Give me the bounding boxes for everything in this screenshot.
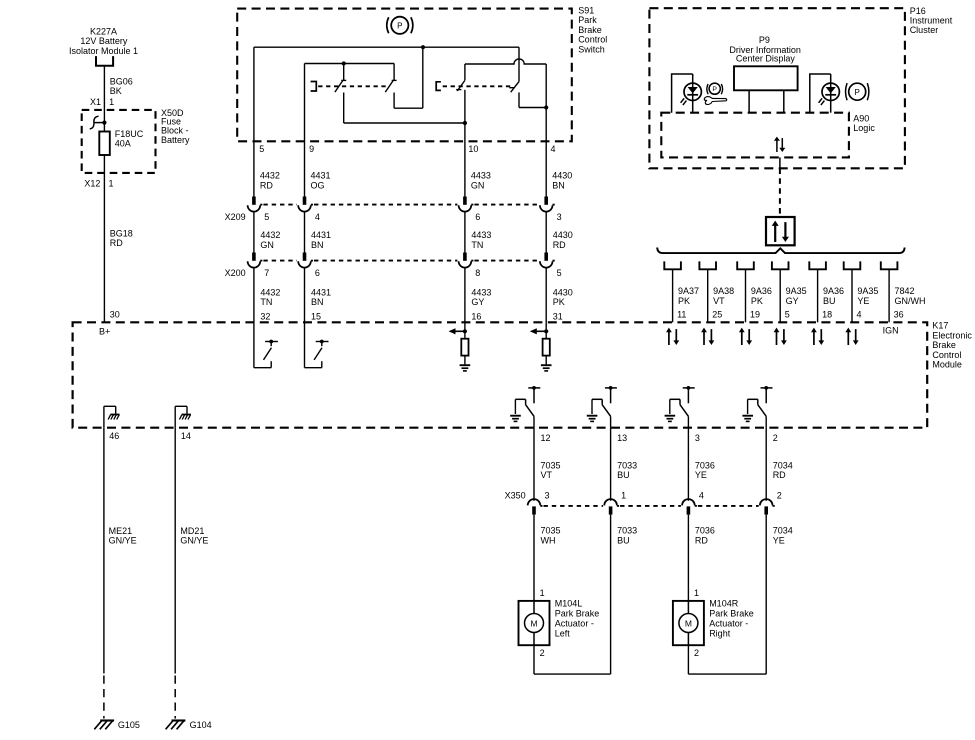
svg-text:7034: 7034 <box>773 526 793 536</box>
svg-text:9A35: 9A35 <box>786 286 807 296</box>
svg-text:9A36: 9A36 <box>823 286 844 296</box>
svg-text:WH: WH <box>541 536 556 546</box>
svg-text:PK: PK <box>678 296 690 306</box>
svg-text:MD21: MD21 <box>180 526 204 536</box>
svg-text:K17: K17 <box>932 321 948 331</box>
svg-text:PK: PK <box>553 297 565 307</box>
svg-text:30: 30 <box>110 309 120 319</box>
svg-text:Control: Control <box>578 35 607 45</box>
svg-text:4430: 4430 <box>552 171 572 181</box>
svg-text:2: 2 <box>773 433 778 443</box>
svg-text:18: 18 <box>822 310 832 320</box>
svg-text:9: 9 <box>309 144 314 154</box>
svg-text:Actuator -: Actuator - <box>555 618 594 628</box>
svg-text:32: 32 <box>260 312 270 322</box>
svg-text:4431: 4431 <box>311 287 331 297</box>
svg-text:7: 7 <box>264 268 269 278</box>
svg-text:S91: S91 <box>578 6 594 16</box>
svg-text:YE: YE <box>773 536 785 546</box>
svg-text:RD: RD <box>695 536 708 546</box>
svg-text:GY: GY <box>786 296 799 306</box>
svg-text:5: 5 <box>785 310 790 320</box>
svg-text:7033: 7033 <box>617 460 637 470</box>
svg-text:GY: GY <box>471 297 484 307</box>
svg-text:4432: 4432 <box>260 287 280 297</box>
svg-text:GN/WH: GN/WH <box>895 296 926 306</box>
svg-text:31: 31 <box>553 312 563 322</box>
svg-text:4431: 4431 <box>311 230 331 240</box>
svg-text:VT: VT <box>713 296 725 306</box>
svg-text:3: 3 <box>557 212 562 222</box>
svg-text:X12: X12 <box>84 179 100 189</box>
svg-text:4433: 4433 <box>471 171 491 181</box>
svg-text:10: 10 <box>468 144 478 154</box>
svg-text:4432: 4432 <box>260 171 280 181</box>
svg-text:BU: BU <box>617 536 630 546</box>
svg-text:G105: G105 <box>118 720 140 730</box>
svg-text:YE: YE <box>857 296 869 306</box>
svg-text:Park Brake: Park Brake <box>709 609 754 619</box>
svg-text:1: 1 <box>109 97 114 107</box>
svg-text:TN: TN <box>471 240 483 250</box>
svg-text:7035: 7035 <box>541 460 561 470</box>
svg-text:Center Display: Center Display <box>736 53 796 63</box>
svg-text:4: 4 <box>315 212 320 222</box>
svg-text:4432: 4432 <box>260 230 280 240</box>
svg-text:2: 2 <box>777 491 782 501</box>
svg-text:Switch: Switch <box>578 44 605 54</box>
svg-text:8: 8 <box>475 268 480 278</box>
svg-text:Left: Left <box>555 628 571 638</box>
svg-text:6: 6 <box>475 212 480 222</box>
svg-text:1: 1 <box>109 179 114 189</box>
svg-text:Electronic: Electronic <box>932 330 972 340</box>
svg-text:Brake: Brake <box>932 340 956 350</box>
svg-text:X1: X1 <box>90 97 101 107</box>
svg-text:4: 4 <box>857 310 862 320</box>
svg-text:4431: 4431 <box>311 171 331 181</box>
svg-text:Isolator Module 1: Isolator Module 1 <box>69 46 138 56</box>
svg-text:5: 5 <box>264 212 269 222</box>
svg-text:BG06: BG06 <box>110 76 133 86</box>
svg-text:9A37: 9A37 <box>678 286 699 296</box>
svg-text:2: 2 <box>540 648 545 658</box>
svg-text:Actuator -: Actuator - <box>709 618 748 628</box>
svg-text:4: 4 <box>551 144 556 154</box>
svg-text:IGN: IGN <box>883 326 899 336</box>
svg-text:1: 1 <box>540 588 545 598</box>
svg-text:RD: RD <box>110 238 123 248</box>
svg-text:P16: P16 <box>910 6 926 16</box>
svg-text:4433: 4433 <box>471 230 491 240</box>
svg-text:Cluster: Cluster <box>910 25 939 35</box>
svg-text:4: 4 <box>699 491 704 501</box>
svg-text:GN: GN <box>471 180 485 190</box>
svg-text:X350: X350 <box>505 491 526 501</box>
svg-text:BK: BK <box>110 86 122 96</box>
svg-text:YE: YE <box>695 470 707 480</box>
svg-text:K227A: K227A <box>90 26 117 36</box>
svg-text:19: 19 <box>750 310 760 320</box>
svg-text:OG: OG <box>311 180 325 190</box>
svg-text:Logic: Logic <box>853 123 875 133</box>
svg-text:P: P <box>855 88 860 97</box>
svg-text:3: 3 <box>545 491 550 501</box>
svg-text:7033: 7033 <box>617 526 637 536</box>
svg-text:7034: 7034 <box>773 460 793 470</box>
svg-text:P9: P9 <box>759 35 770 45</box>
svg-text:7035: 7035 <box>541 526 561 536</box>
svg-text:RD: RD <box>773 470 786 480</box>
svg-text:40A: 40A <box>115 139 131 149</box>
svg-text:7036: 7036 <box>695 526 715 536</box>
svg-text:46: 46 <box>109 431 119 441</box>
svg-text:12: 12 <box>541 433 551 443</box>
svg-text:14: 14 <box>181 431 191 441</box>
svg-text:M104L: M104L <box>555 599 583 609</box>
svg-text:6: 6 <box>315 268 320 278</box>
svg-text:11: 11 <box>677 310 686 320</box>
svg-text:Brake: Brake <box>578 25 602 35</box>
svg-text:5: 5 <box>557 268 562 278</box>
svg-text:Instrument: Instrument <box>910 16 953 26</box>
svg-text:4433: 4433 <box>471 287 491 297</box>
svg-text:Control: Control <box>932 350 961 360</box>
svg-text:12V Battery: 12V Battery <box>80 36 128 46</box>
svg-text:P: P <box>712 86 717 93</box>
svg-text:X200: X200 <box>225 268 246 278</box>
svg-text:3: 3 <box>695 433 700 443</box>
svg-text:1: 1 <box>694 588 699 598</box>
svg-text:B+: B+ <box>99 326 110 336</box>
svg-text:Module: Module <box>932 360 962 370</box>
svg-text:25: 25 <box>712 310 722 320</box>
svg-text:15: 15 <box>311 312 321 322</box>
svg-text:ME21: ME21 <box>109 526 133 536</box>
svg-text:P: P <box>397 21 402 30</box>
svg-text:7036: 7036 <box>695 460 715 470</box>
svg-text:GN/YE: GN/YE <box>109 536 137 546</box>
svg-text:13: 13 <box>617 433 627 443</box>
svg-text:Battery: Battery <box>161 135 190 145</box>
svg-text:TN: TN <box>260 297 272 307</box>
svg-text:9A35: 9A35 <box>857 286 878 296</box>
svg-text:GN/YE: GN/YE <box>180 536 208 546</box>
svg-text:M104R: M104R <box>709 599 739 609</box>
svg-text:GN: GN <box>260 240 274 250</box>
svg-text:Park Brake: Park Brake <box>555 609 600 619</box>
svg-text:BN: BN <box>311 240 324 250</box>
svg-text:5: 5 <box>259 144 264 154</box>
svg-text:16: 16 <box>471 312 481 322</box>
svg-text:X209: X209 <box>225 212 246 222</box>
svg-text:M: M <box>685 618 692 628</box>
svg-text:BN: BN <box>552 180 565 190</box>
svg-text:36: 36 <box>894 310 904 320</box>
svg-text:4430: 4430 <box>553 287 573 297</box>
svg-text:BU: BU <box>617 470 630 480</box>
svg-text:Right: Right <box>709 628 731 638</box>
svg-text:F18UC: F18UC <box>115 129 144 139</box>
svg-text:PK: PK <box>751 296 763 306</box>
svg-text:RD: RD <box>260 180 273 190</box>
svg-text:BU: BU <box>823 296 836 306</box>
svg-text:9A38: 9A38 <box>713 286 734 296</box>
svg-text:RD: RD <box>553 240 566 250</box>
svg-text:M: M <box>530 618 537 628</box>
svg-text:VT: VT <box>541 470 553 480</box>
svg-text:G104: G104 <box>190 720 212 730</box>
svg-text:4430: 4430 <box>553 230 573 240</box>
svg-text:Park: Park <box>578 15 597 25</box>
svg-text:A90: A90 <box>853 113 869 123</box>
svg-text:BG18: BG18 <box>110 228 133 238</box>
svg-text:2: 2 <box>694 648 699 658</box>
svg-text:7842: 7842 <box>895 286 915 296</box>
svg-text:9A36: 9A36 <box>751 286 772 296</box>
svg-text:BN: BN <box>311 297 324 307</box>
svg-text:1: 1 <box>621 491 626 501</box>
